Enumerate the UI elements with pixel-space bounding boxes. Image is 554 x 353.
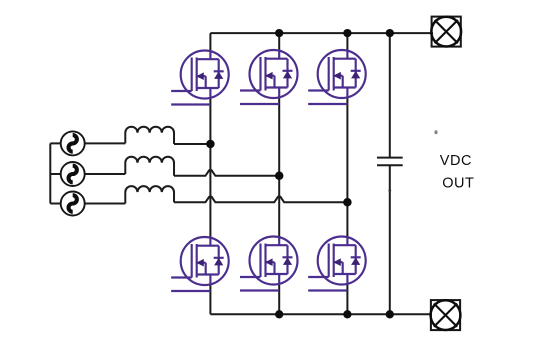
svg-text:OUT: OUT bbox=[442, 175, 474, 191]
svg-text:VDC: VDC bbox=[440, 153, 472, 169]
